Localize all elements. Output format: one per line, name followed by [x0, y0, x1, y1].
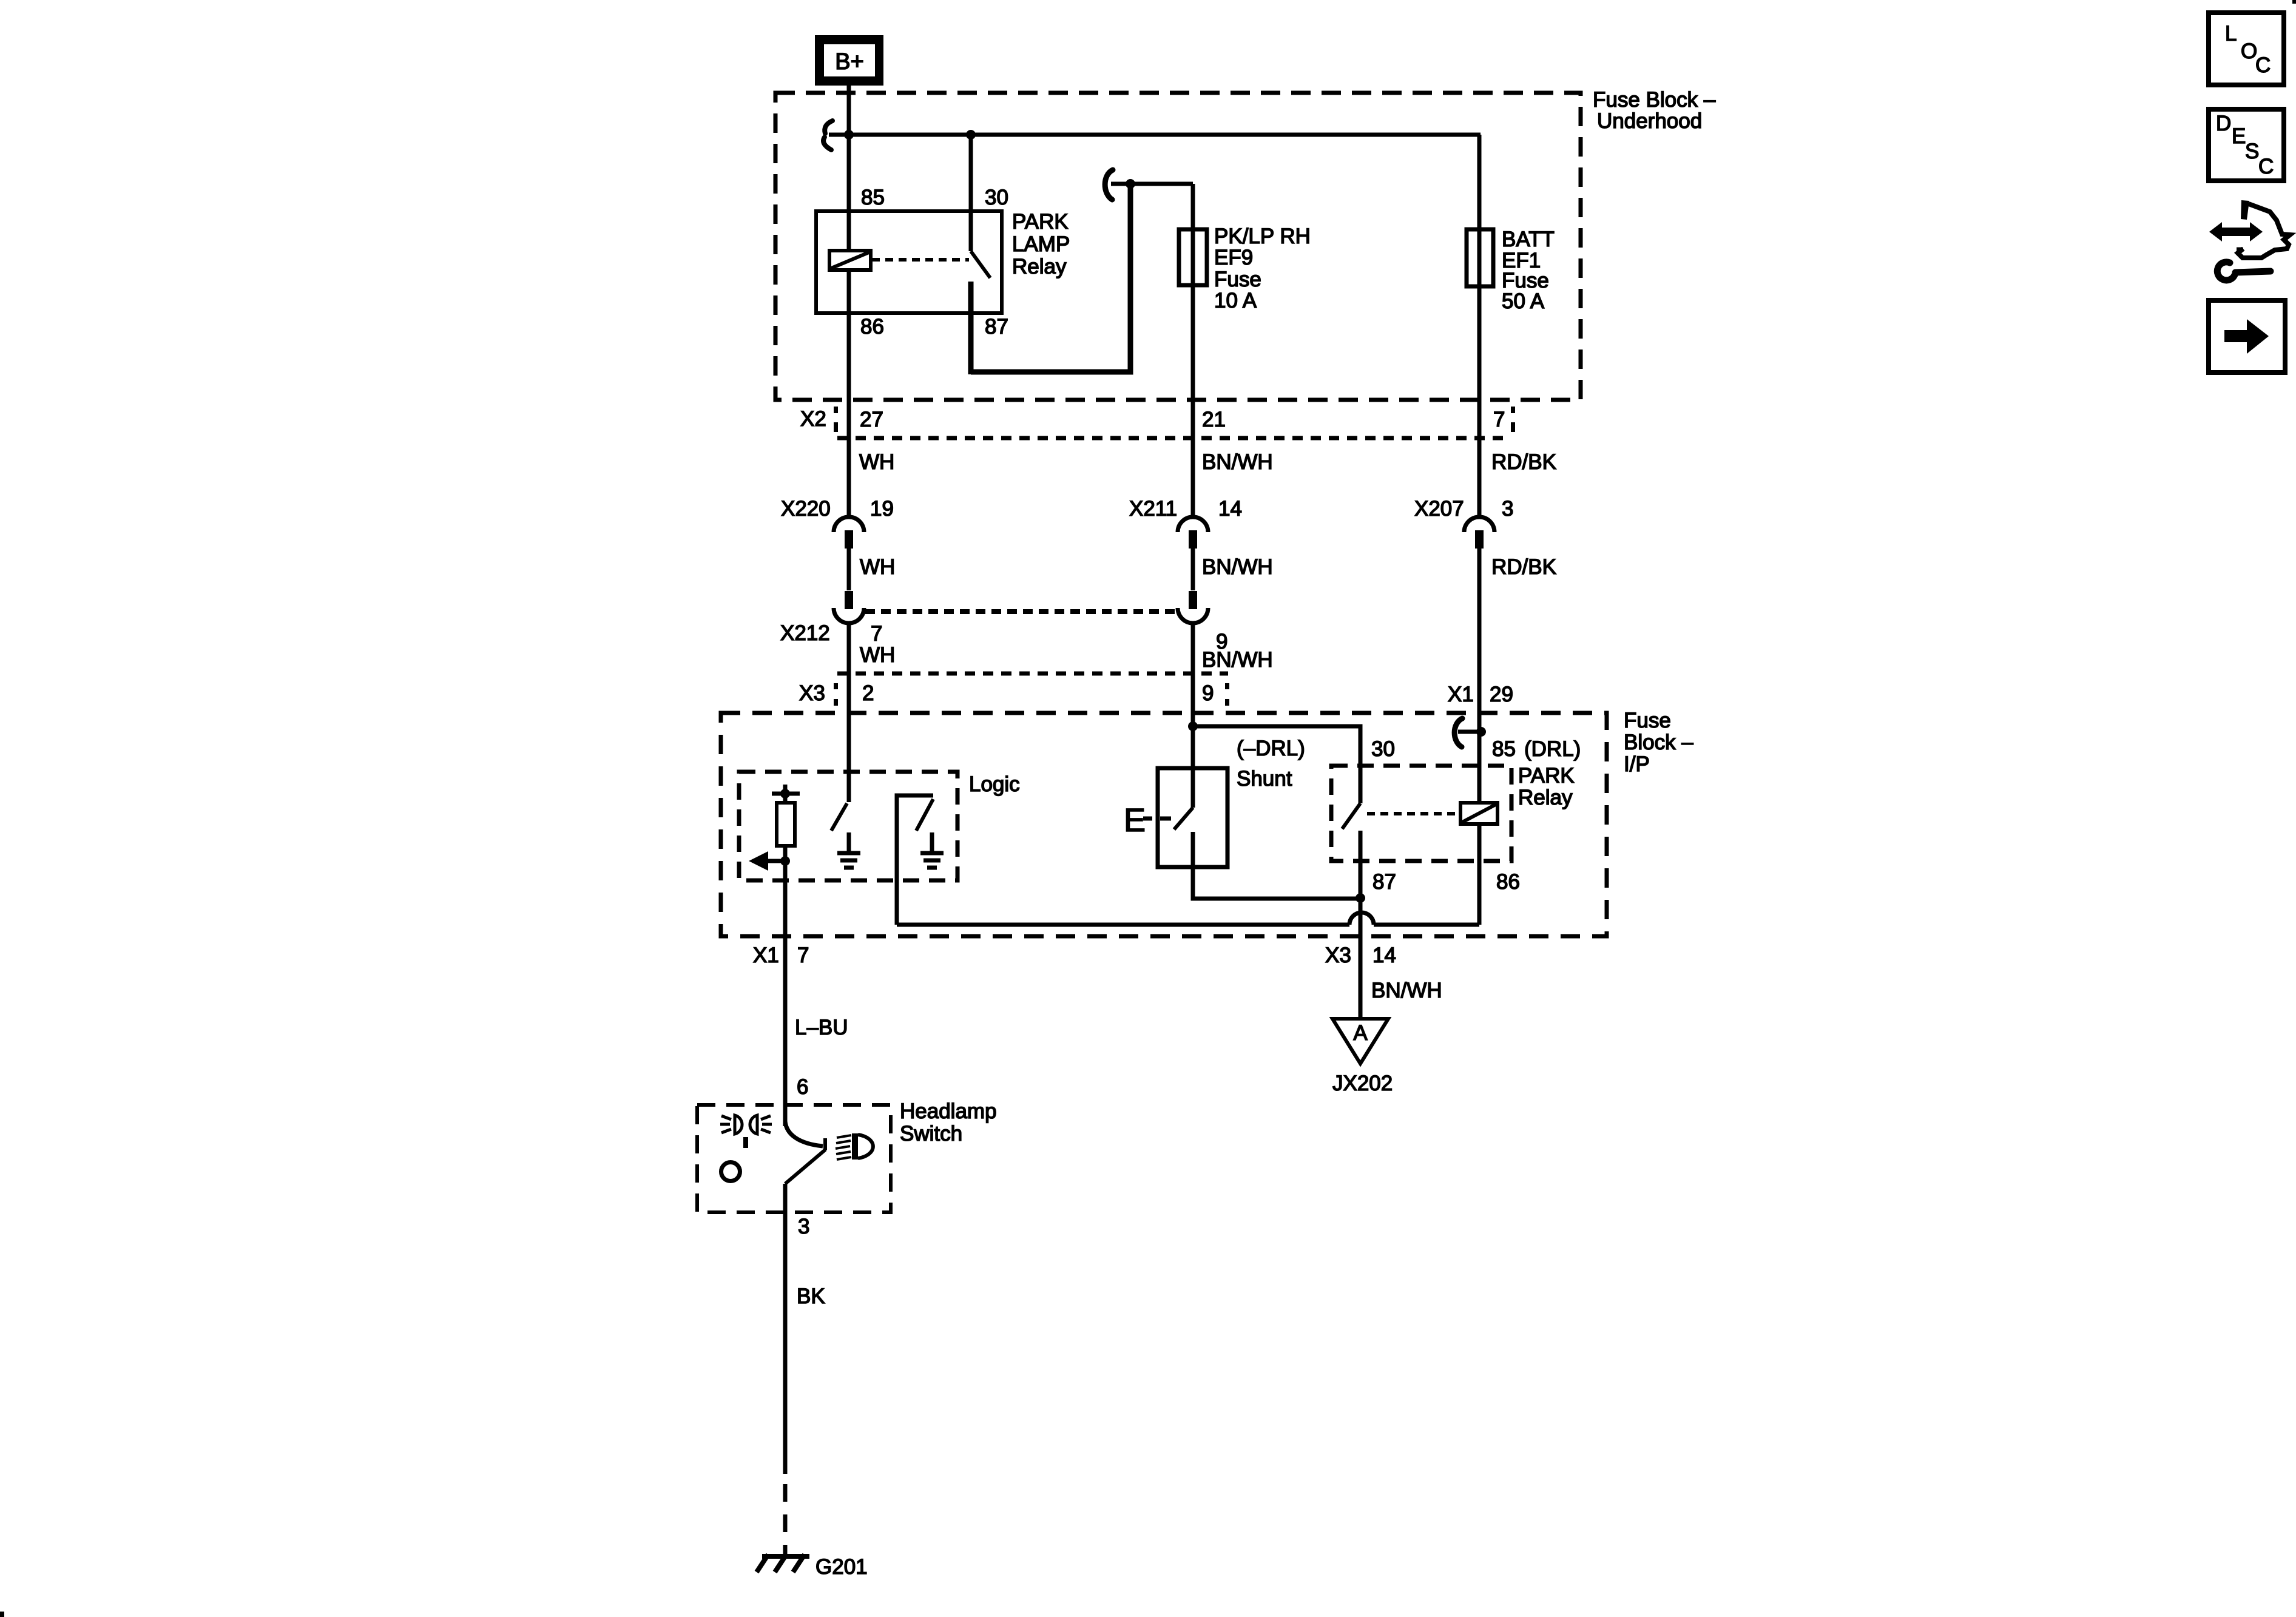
splice S2	[1105, 170, 1113, 200]
relay DRL PARK dashed box	[1331, 766, 1511, 861]
svg-text:19: 19	[870, 497, 894, 521]
off position circle	[721, 1163, 740, 1181]
splice S3	[1454, 718, 1462, 747]
svg-text:3: 3	[798, 1215, 809, 1238]
wire pin87 stub	[968, 282, 974, 374]
next-page arrow	[2224, 319, 2269, 354]
svg-text:Fuse: Fuse	[1214, 268, 1261, 291]
svg-text:X220: X220	[781, 497, 831, 521]
arrow output	[749, 851, 785, 871]
shunt switch lever	[1174, 808, 1193, 829]
fuse EF9	[1179, 229, 1207, 285]
wire bus elbow down to EF1	[1477, 135, 1482, 515]
svg-text:X1: X1	[1448, 683, 1474, 706]
svg-text:C: C	[2255, 53, 2271, 77]
svg-text:Headlamp: Headlamp	[900, 1099, 997, 1123]
svg-text:BN/WH: BN/WH	[1371, 979, 1442, 1002]
connector X212 col1	[834, 591, 864, 623]
svg-text:X3: X3	[799, 681, 825, 705]
svg-text:14: 14	[1373, 944, 1396, 967]
node 87/EF9 junction	[1126, 179, 1135, 189]
svg-text:L: L	[2225, 22, 2237, 46]
wire B+ to relay coil	[847, 81, 851, 251]
off stem tick	[743, 1137, 748, 1148]
LOC letters	[2225, 22, 2271, 77]
icon wrench	[2217, 262, 2271, 280]
svg-text:JX202: JX202	[1332, 1072, 1393, 1095]
svg-text:X211: X211	[1129, 497, 1177, 521]
svg-text:3: 3	[1502, 497, 1513, 521]
DESC letters	[2216, 112, 2274, 178]
wire logic to 86 with bump	[897, 913, 1479, 925]
shunt E input	[1124, 802, 1171, 839]
DRL relay coil-switch dashed link	[1367, 812, 1459, 815]
svg-text:BN/WH: BN/WH	[1202, 555, 1273, 579]
wire ground dashed	[783, 1484, 788, 1555]
svg-text:X212: X212	[780, 621, 830, 645]
svg-text:85: 85	[1492, 737, 1516, 761]
svg-text:Switch: Switch	[900, 1122, 962, 1146]
svg-text:RD/BK: RD/BK	[1491, 450, 1556, 474]
park lamp icon	[720, 1115, 772, 1134]
icon next-page arrow box	[2209, 300, 2285, 373]
ground logic 1	[837, 832, 860, 868]
svg-text:7: 7	[871, 622, 882, 646]
svg-text:B+: B+	[835, 49, 864, 75]
wire headlamp to ground solid	[783, 1184, 788, 1474]
junction JX202 triangle	[1332, 1019, 1388, 1064]
wire col1 X212 down	[847, 625, 851, 802]
wire color labels row2	[860, 555, 1556, 579]
svg-text:X207: X207	[1414, 497, 1464, 521]
svg-text:WH: WH	[859, 450, 894, 474]
wire pin30 stub	[969, 135, 973, 251]
svg-text:Relay: Relay	[1012, 255, 1067, 279]
relay coil K1	[829, 251, 871, 270]
wire 86 down to bus	[1477, 824, 1482, 925]
node shunt feed junction	[1188, 721, 1198, 731]
svg-text:(DRL): (DRL)	[1524, 737, 1581, 761]
wire color labels row1	[859, 450, 1556, 474]
splice S1	[823, 121, 832, 150]
wire 87 down to JX202	[1359, 831, 1363, 1020]
relay PARK LAMP box	[816, 211, 1002, 313]
svg-text:Shunt: Shunt	[1237, 767, 1292, 791]
wire col1 X220-X212	[847, 549, 851, 590]
icon remove/install arrows	[2209, 200, 2290, 258]
connector row X3 dashed line	[837, 672, 1228, 676]
svg-text:BK: BK	[797, 1284, 825, 1308]
svg-text:30: 30	[1371, 737, 1395, 761]
wire shunt to relay30	[1193, 726, 1360, 803]
X3 row labels	[799, 681, 1513, 706]
svg-text:9: 9	[1202, 681, 1214, 705]
svg-text:7: 7	[1493, 408, 1505, 431]
Fuse Block Underhood dashed box	[775, 93, 1581, 400]
svg-text:86: 86	[1496, 870, 1520, 894]
svg-text:21: 21	[1202, 408, 1226, 431]
svg-text:30: 30	[985, 186, 1008, 209]
svg-text:29: 29	[1490, 683, 1513, 706]
node 85 junction	[1476, 727, 1486, 737]
Headlamp Switch label	[900, 1099, 997, 1146]
svg-text:X1: X1	[753, 944, 779, 967]
connector X212 col2 half	[1178, 591, 1208, 623]
ground G201	[757, 1555, 809, 1572]
svg-text:PARK: PARK	[1518, 764, 1575, 788]
node bus-B+ junction	[844, 130, 854, 140]
X2 labels	[800, 407, 1515, 432]
connector X220	[834, 517, 864, 549]
svg-text:S: S	[2245, 140, 2259, 163]
wire shunt output	[1193, 832, 1360, 899]
logic resistor element R	[772, 785, 800, 846]
wire col2 X211-X212row	[1191, 549, 1195, 590]
svg-text:50 A: 50 A	[1502, 289, 1545, 313]
fuse EF9 label	[1214, 224, 1311, 312]
svg-text:BN/WH: BN/WH	[1202, 450, 1273, 474]
svg-text:X3: X3	[1325, 944, 1351, 967]
relay name label	[1012, 210, 1070, 279]
svg-text:E: E	[1124, 802, 1146, 839]
connector X212 labels	[780, 621, 1273, 672]
headlamp switch wiper	[785, 1121, 825, 1184]
svg-text:27: 27	[860, 408, 883, 431]
svg-text:EF9: EF9	[1214, 246, 1253, 269]
svg-text:RD/BK: RD/BK	[1491, 555, 1556, 579]
wire resistor to X1/7	[783, 846, 788, 1126]
svg-text:PK/LP RH: PK/LP RH	[1214, 224, 1311, 248]
svg-text:X2: X2	[800, 407, 826, 431]
connector row X2 dashed line	[837, 436, 1511, 441]
relay switch lever	[971, 251, 990, 278]
svg-text:85: 85	[861, 186, 885, 209]
node resistor top	[780, 789, 790, 798]
svg-text:10 A: 10 A	[1214, 289, 1257, 312]
connector X212 link dashed	[865, 609, 1177, 614]
svg-text:D: D	[2216, 112, 2231, 135]
logic switch 1 lever	[831, 803, 847, 831]
relay coil-switch dashed link	[872, 258, 969, 262]
svg-text:G201: G201	[815, 1555, 868, 1579]
svg-text:6: 6	[797, 1075, 808, 1099]
X1/7 labels bottom	[753, 944, 1442, 1099]
wire col2 X212row down	[1191, 625, 1195, 808]
shunt labels	[1237, 737, 1305, 791]
wire col3 X207 down	[1477, 549, 1482, 803]
svg-text:87: 87	[985, 315, 1008, 339]
node arrow junction	[780, 856, 790, 866]
svg-text:Fuse: Fuse	[1624, 709, 1671, 732]
DRL relay labels	[1371, 737, 1581, 894]
DRL relay switch lever	[1342, 803, 1360, 829]
svg-text:L–BU: L–BU	[795, 1016, 848, 1039]
B+ power symbol	[815, 35, 883, 86]
Fuse Block Underhood label	[1593, 88, 1716, 133]
svg-text:I/P: I/P	[1624, 752, 1650, 776]
svg-text:86: 86	[860, 315, 884, 339]
svg-text:Logic: Logic	[969, 772, 1020, 796]
svg-text:14: 14	[1218, 497, 1242, 521]
low beam icon	[836, 1133, 873, 1160]
svg-text:7: 7	[797, 944, 809, 967]
DRL relay coil	[1460, 803, 1497, 824]
svg-text:(–DRL): (–DRL)	[1237, 737, 1305, 760]
svg-text:87: 87	[1373, 870, 1396, 894]
svg-text:Fuse Block –: Fuse Block –	[1593, 88, 1716, 112]
corner mark top right	[2292, 0, 2296, 4]
wire coil to X220	[847, 270, 851, 515]
fuse EF1 label	[1502, 228, 1555, 313]
svg-text:Relay: Relay	[1518, 786, 1573, 809]
logic switch 2	[897, 795, 933, 925]
corner mark bottom left	[0, 1612, 4, 1617]
svg-text:Block –: Block –	[1624, 731, 1693, 754]
svg-text:WH: WH	[860, 643, 895, 667]
wire EF9 column	[1191, 184, 1195, 515]
svg-text:Underhood: Underhood	[1597, 109, 1702, 133]
node bus-30 junction	[966, 130, 976, 140]
icon LOC box	[2209, 13, 2284, 85]
wire bus B+ feed	[829, 133, 1481, 137]
wire splice stub to EF9 top	[1111, 182, 1193, 186]
Headlamp Switch dashed box	[697, 1105, 891, 1212]
svg-text:BATT: BATT	[1502, 228, 1555, 251]
node shunt/87 junction	[1356, 893, 1365, 903]
svg-text:E: E	[2232, 124, 2246, 148]
shunt box	[1158, 768, 1227, 867]
svg-text:2: 2	[862, 681, 874, 705]
fuse EF1	[1467, 229, 1493, 286]
Fuse Block I/P dashed box	[721, 713, 1607, 936]
svg-text:WH: WH	[860, 555, 895, 579]
svg-text:PARK: PARK	[1012, 210, 1069, 234]
wire 87 loop to EF9	[971, 184, 1130, 372]
connector X207	[1464, 517, 1494, 549]
svg-text:C: C	[2258, 155, 2274, 178]
connector X211	[1178, 517, 1208, 549]
Fuse Block I/P label	[1624, 709, 1693, 776]
connector X207 labels	[1414, 497, 1513, 521]
connector X211 labels	[1129, 497, 1242, 521]
ground logic 2	[920, 832, 944, 868]
icon DESC box	[2209, 109, 2284, 181]
Logic dashed box	[739, 772, 957, 880]
wire splice stub X1/29	[1458, 730, 1481, 734]
svg-text:LAMP: LAMP	[1012, 232, 1070, 256]
svg-text:A: A	[1353, 1021, 1368, 1045]
svg-text:BN/WH: BN/WH	[1202, 648, 1273, 672]
connector X220 labels	[781, 497, 894, 521]
